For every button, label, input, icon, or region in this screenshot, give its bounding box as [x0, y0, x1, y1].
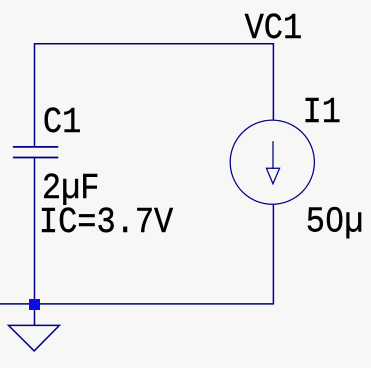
current source I1 arrow shaft	[272, 141, 274, 169]
wire: top horizontal net VC1	[35, 43, 274, 45]
svg-text:I1: I1	[303, 93, 341, 133]
wire: right vertical from top wire to current source top	[272, 43, 274, 120]
wire: bottom horizontal ground net	[0, 303, 274, 305]
svg-text:C1: C1	[43, 104, 81, 144]
svg-text:50µ: 50µ	[306, 203, 364, 243]
wire: left vertical from top wire to capacitor top plate	[34, 43, 36, 147]
wire: right vertical from current source bottom to bottom wire	[272, 204, 274, 304]
wire: left vertical from capacitor bottom plate to ground junction	[34, 158, 36, 304]
ground symbol triangle	[9, 325, 60, 351]
current source I1 circle	[230, 120, 314, 204]
svg-text:IC=3.7V: IC=3.7V	[39, 204, 174, 244]
capacitor C1 top plate	[13, 146, 58, 148]
cover dot inside Liberation Mono zero glyph	[332, 215, 338, 222]
current source I1 arrowhead	[266, 168, 279, 184]
svg-text:VC1: VC1	[245, 10, 303, 50]
wire: ground stub	[34, 304, 36, 326]
capacitor C1 bottom plate	[13, 157, 58, 159]
node junction square at ground	[29, 299, 40, 310]
